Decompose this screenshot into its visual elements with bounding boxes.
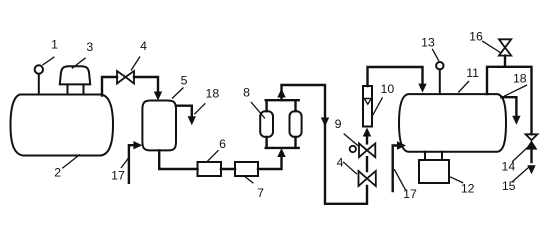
svg-text:15: 15 — [502, 179, 516, 193]
svg-text:5: 5 — [181, 74, 188, 88]
svg-text:17: 17 — [111, 169, 125, 183]
svg-text:11: 11 — [466, 66, 479, 80]
svg-text:14: 14 — [502, 160, 516, 174]
svg-text:18: 18 — [206, 87, 220, 101]
svg-text:18: 18 — [513, 72, 527, 86]
svg-text:8: 8 — [243, 86, 250, 100]
svg-text:7: 7 — [257, 186, 264, 200]
svg-text:16: 16 — [469, 30, 483, 44]
svg-text:9: 9 — [335, 117, 342, 131]
svg-text:13: 13 — [421, 36, 435, 50]
svg-text:6: 6 — [219, 137, 226, 151]
svg-text:10: 10 — [381, 82, 395, 96]
svg-text:4: 4 — [140, 39, 147, 53]
svg-text:2: 2 — [54, 166, 61, 180]
svg-text:17: 17 — [403, 187, 417, 201]
svg-text:12: 12 — [461, 182, 475, 196]
svg-text:1: 1 — [51, 38, 58, 52]
svg-text:4: 4 — [337, 156, 344, 170]
svg-text:3: 3 — [86, 40, 93, 54]
